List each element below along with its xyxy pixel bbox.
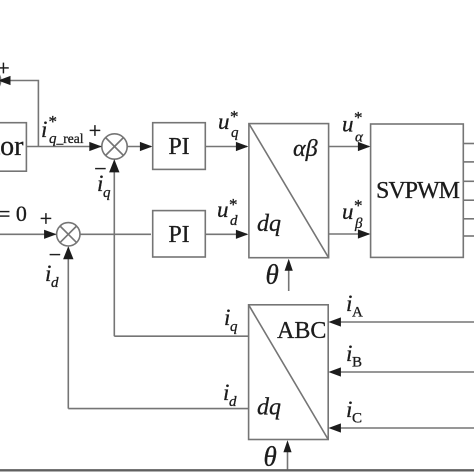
- wire: SVPWM output 2: [463, 161, 474, 163]
- label: i*_q_real: [41, 112, 84, 147]
- arrowhead: i_C into ABC/dq block: [328, 423, 341, 432]
- label: i_A: [346, 291, 363, 321]
- wire: u*_beta to SVPWM: [329, 233, 369, 235]
- svg-text:PI: PI: [168, 222, 189, 248]
- label: u*_d: [217, 195, 238, 229]
- svg-text:d: d: [230, 213, 238, 229]
- svg-text:= 0: = 0: [0, 201, 27, 226]
- arrowhead: feedback to torque loop (points left): [0, 76, 11, 85]
- svg-text:u: u: [218, 109, 230, 134]
- label: i_q below S1: [97, 171, 111, 201]
- block SVPWM: [371, 124, 464, 257]
- arrowhead: theta up into ABC/dq block: [283, 440, 291, 452]
- label: u*_alpha: [342, 108, 364, 146]
- wire: PI1 output u*_q to dq/ab block: [205, 146, 247, 148]
- wire: regulator output to summing junction S1: [26, 146, 101, 148]
- wire: i_B input line: [340, 371, 474, 373]
- wire: SVPWM output 3: [463, 180, 474, 182]
- svg-text:regulator: regulator: [0, 131, 24, 162]
- svg-text:ABC: ABC: [277, 318, 326, 344]
- svg-text:i: i: [41, 117, 47, 142]
- svg-text:+: +: [0, 56, 10, 81]
- wire: bottom bus line: [0, 469, 474, 471]
- wire: theta input to ABC/dq block: [287, 450, 289, 470]
- label: i_B: [346, 341, 362, 371]
- wire: i_C input line: [340, 427, 474, 429]
- label: u*_q: [218, 107, 239, 141]
- wire: i_A input line: [340, 321, 474, 323]
- arrowhead: u*_d into dq/ab block: [236, 230, 249, 239]
- svg-text:*: *: [49, 112, 58, 131]
- wire: i_d reference line (i_d*=0) into S2: [0, 233, 56, 235]
- svg-text:αβ: αβ: [293, 136, 318, 162]
- wire: SVPWM output 5: [463, 218, 474, 220]
- block PI1: [153, 123, 206, 170]
- arrowhead: u*_beta into SVPWM: [358, 229, 371, 238]
- svg-text:*: *: [230, 107, 239, 126]
- svg-text:d: d: [51, 275, 59, 291]
- arrowhead: into S1 from left: [89, 142, 102, 151]
- svg-text:θ: θ: [264, 442, 277, 472]
- svg-text:*: *: [354, 108, 363, 127]
- wire: SVPWM output 1: [463, 143, 474, 145]
- arrowhead: theta up into dq/ab block: [285, 259, 293, 271]
- svg-text:α: α: [355, 130, 364, 146]
- svg-text:+: +: [40, 206, 52, 231]
- arrowhead: i_q feedback up into S1: [109, 159, 119, 172]
- svg-text:*: *: [354, 196, 363, 215]
- wire: i_q output from ABC/dq block: [114, 335, 248, 337]
- wire: i_d feedback vertical into S2: [67, 248, 69, 409]
- svg-text:u: u: [342, 112, 354, 137]
- wire: i_q feedback vertical into S1: [113, 161, 115, 337]
- svg-text:dq: dq: [257, 395, 281, 421]
- svg-text:PI: PI: [168, 134, 189, 160]
- block PI2: [153, 211, 206, 257]
- wire: feedback branch up from node at (38.4,146.5): [4, 81, 38, 147]
- summing junction S1: [102, 134, 127, 159]
- wire: S1 to PI1: [127, 146, 151, 148]
- arrowhead: into S2 from left: [44, 230, 57, 239]
- arrowhead: u*_q into dq/ab block: [236, 142, 249, 151]
- block: ABC to dq transform: [249, 305, 329, 440]
- arrowhead: i_d feedback up into S2: [63, 246, 73, 259]
- svg-text:*: *: [229, 195, 238, 214]
- svg-text:SVPWM: SVPWM: [376, 178, 460, 204]
- summing junction S0 (off-canvas left, arc sliver at edge): [0, 69, 1, 92]
- wire: i_d output from ABC/dq block: [68, 408, 248, 410]
- wire: PI2 output u*_d to dq/ab block: [205, 233, 247, 235]
- wire: SVPWM output 4: [463, 199, 474, 201]
- label: i_q output of ABC block: [224, 305, 238, 335]
- svg-text:A: A: [352, 305, 363, 321]
- svg-text:β: β: [354, 216, 363, 232]
- arrowhead: i_B into ABC/dq block: [328, 367, 341, 376]
- svg-text:q: q: [103, 185, 111, 201]
- svg-text:θ: θ: [266, 260, 279, 290]
- arrowhead: i_A into ABC/dq block: [328, 317, 341, 326]
- arrowhead: into PI1: [140, 142, 153, 151]
- svg-text:+: +: [89, 118, 101, 143]
- arrowhead: u*_alpha into SVPWM: [358, 142, 371, 151]
- svg-text:B: B: [352, 355, 362, 371]
- label: u*_beta: [342, 196, 363, 232]
- label: i_C: [346, 397, 362, 427]
- svg-text:C: C: [352, 411, 362, 427]
- block: dq to alpha-beta transform: [249, 124, 329, 258]
- wire: theta input to dq/ab block: [288, 266, 290, 291]
- svg-text:u: u: [342, 199, 354, 224]
- svg-text:q: q: [230, 319, 238, 335]
- svg-text:dq: dq: [257, 211, 281, 237]
- svg-text:q: q: [231, 125, 239, 141]
- wire: S2 to PI2: [80, 233, 151, 235]
- svg-text:u: u: [217, 197, 229, 222]
- wire: SVPWM output 6: [463, 235, 474, 237]
- label: i_d output of ABC block: [223, 380, 237, 410]
- summing junction S2: [57, 223, 80, 246]
- label: i_d below S2: [45, 261, 59, 291]
- svg-text:_real: _real: [56, 131, 84, 146]
- wire: u*_alpha to SVPWM: [329, 146, 369, 148]
- block: speed regulator (cut off at left, shows "tor"): [0, 123, 26, 172]
- svg-text:d: d: [229, 394, 237, 410]
